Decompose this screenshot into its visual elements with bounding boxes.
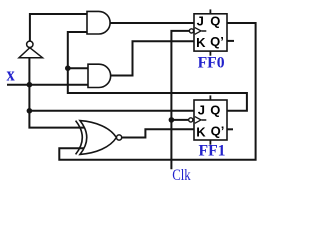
- wire x input: [8, 84, 88, 86]
- wire Clk vertical to FF0 clock: [171, 31, 189, 168]
- AND gate A2: [88, 64, 111, 87]
- XNOR gate X1 body: [80, 121, 116, 155]
- FF1 clock bubble: [189, 118, 193, 122]
- FF0 clear tick: [209, 51, 211, 56]
- XNOR gate X1 second back arc: [76, 121, 83, 155]
- wire inverter output to AND A1 top input: [30, 14, 87, 41]
- svg-text:Clk: Clk: [172, 167, 191, 184]
- inverter G1 triangle: [19, 48, 43, 58]
- wire Clk branch to FF1 clock: [171, 119, 189, 121]
- wire x to FF1 J: [29, 110, 194, 112]
- svg-text:x: x: [7, 65, 16, 86]
- wire FF1 Q feedback to AND A1 lower input: [68, 32, 247, 111]
- junction x / inverter column: [27, 82, 33, 88]
- wire x vertical bus to XNOR top input: [29, 58, 83, 128]
- wire XNOR output to FF1 K: [122, 129, 194, 137]
- flip-flop FF1 box: [194, 100, 227, 140]
- svg-text:J: J: [197, 13, 204, 28]
- FF0 clock triangle: [195, 28, 201, 35]
- flip-flop FF0 box: [194, 14, 227, 51]
- FF1 clock dash: [202, 119, 207, 121]
- junction x to FF1 J: [27, 108, 33, 114]
- wire FF1 Q' stub: [227, 128, 232, 130]
- svg-text:Q: Q: [210, 103, 220, 118]
- svg-text:FF0: FF0: [198, 55, 225, 72]
- svg-text:FF1: FF1: [199, 143, 226, 160]
- wire FF0 Q' stub: [227, 40, 233, 42]
- wire AND A1 output to FF0 J: [110, 22, 194, 24]
- FF0 clock bubble: [189, 29, 193, 33]
- AND gate A1: [87, 11, 110, 34]
- wire FF0 Q feedback to XNOR lower input: [59, 23, 255, 160]
- inverter G1 bubble: [27, 41, 33, 47]
- svg-text:Q’: Q’: [211, 124, 225, 139]
- FF0 clock dash: [202, 30, 207, 32]
- wire AND A2 output to FF0 K: [110, 41, 194, 75]
- junction Q1 feedback to AND A2: [65, 65, 71, 71]
- XNOR gate X1 output bubble: [117, 135, 122, 140]
- FF0 preset tick: [209, 9, 211, 13]
- wire Q1 tap to AND A2 top input: [68, 67, 88, 69]
- FF1 clear tick: [209, 140, 211, 145]
- FF1 clock triangle: [195, 117, 201, 124]
- svg-text:Q’: Q’: [210, 34, 224, 49]
- svg-text:K: K: [196, 125, 206, 140]
- svg-text:J: J: [198, 102, 205, 117]
- junction Clk to FF1 clock: [169, 117, 175, 123]
- FF1 preset tick: [209, 95, 211, 100]
- svg-text:Q: Q: [210, 14, 220, 29]
- svg-text:K: K: [196, 35, 206, 50]
